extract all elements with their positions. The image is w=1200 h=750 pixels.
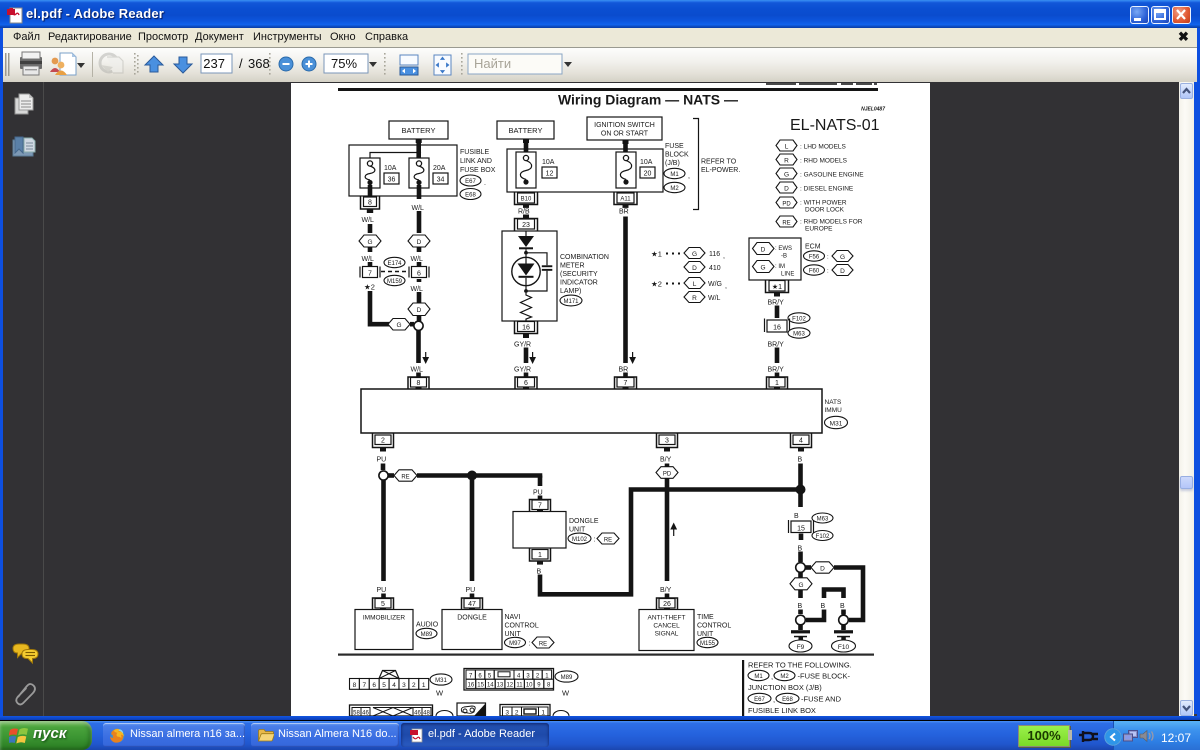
fuse F12 10A [516, 152, 557, 188]
hexagon G at junction [388, 319, 410, 331]
svg-text:(J/B): (J/B) [665, 160, 680, 167]
svg-text:D: D [820, 566, 825, 573]
page header remnant (cut-off running title) [766, 83, 877, 85]
svg-text:M2: M2 [670, 186, 679, 192]
svg-text:2: 2 [381, 438, 385, 445]
svg-text:BR: BR [619, 209, 629, 216]
D branch wire right and down [834, 568, 863, 621]
svg-text:BR/Y: BR/Y [768, 300, 785, 307]
svg-text:-B: -B [781, 254, 787, 260]
svg-text:PU: PU [533, 490, 543, 497]
svg-text:JUNCTION BOX (J/B): JUNCTION BOX (J/B) [748, 683, 822, 692]
svg-text:: IM: : IM [775, 264, 785, 270]
wire battery B1 to fuses [370, 139, 421, 159]
svg-text:D: D [784, 186, 789, 193]
connector face cut 3-2-1 [500, 705, 569, 717]
svg-text:W/G: W/G [708, 281, 722, 288]
fuse block J/B [507, 149, 663, 192]
svg-text:20: 20 [644, 171, 652, 178]
svg-text:: RHD MODELS FOR: : RHD MODELS FOR [800, 219, 863, 226]
hexagon PD [656, 464, 678, 479]
svg-text:ANTI-THEFT: ANTI-THEFT [648, 615, 686, 622]
svg-text:7: 7 [362, 682, 366, 689]
svg-text:IMMU: IMMU [825, 407, 843, 414]
svg-text:F56: F56 [809, 255, 820, 261]
wire to junction circle [381, 464, 386, 471]
svg-text:10A: 10A [640, 159, 653, 166]
svg-text:CONTROL: CONTROL [505, 623, 539, 630]
svg-text:M97: M97 [509, 641, 521, 647]
svg-text:INDICATOR: INDICATOR [560, 280, 598, 287]
svg-text:20A: 20A [433, 165, 446, 172]
svg-text:RE: RE [604, 538, 612, 544]
svg-text:F60: F60 [809, 269, 820, 275]
A11 connector [614, 193, 637, 208]
svg-text:6: 6 [372, 682, 376, 689]
svg-text:B: B [794, 513, 799, 520]
svg-text:: EWS: : EWS [775, 246, 792, 252]
svg-text:REFER TO THE FOLLOWING.: REFER TO THE FOLLOWING. [748, 661, 852, 670]
hexagon D EWS-B [753, 243, 793, 260]
svg-text:L: L [785, 144, 789, 151]
svg-text:COMBINATION: COMBINATION [560, 254, 609, 261]
svg-text:B: B [798, 546, 803, 553]
ground circle B [839, 615, 849, 625]
anti-theft cancel signal box M155 [639, 610, 731, 651]
svg-text:PD: PD [663, 472, 672, 478]
svg-text:G: G [760, 265, 765, 272]
battery B1 [389, 121, 448, 143]
dongle unit pin 1 bracket [530, 549, 551, 565]
svg-text:LAMP): LAMP) [560, 288, 581, 295]
svg-text:BR/Y: BR/Y [768, 367, 785, 374]
svg-text:D: D [761, 247, 766, 254]
svg-text:16: 16 [468, 683, 475, 689]
svg-text:7: 7 [624, 380, 628, 387]
svg-text:BATTERY: BATTERY [402, 126, 436, 135]
ECM labels F56 F60 [804, 244, 830, 262]
svg-text:REFER TO: REFER TO [701, 159, 737, 166]
svg-text:14: 14 [487, 683, 494, 689]
svg-text:8: 8 [368, 200, 372, 207]
svg-text:DONGLE: DONGLE [457, 615, 487, 622]
IMMU pin 7 bracket [615, 377, 637, 390]
BR/Y wire into IMMU pin 1 [775, 373, 780, 379]
junction circle W/L [410, 316, 423, 331]
junction circle B/D [796, 563, 806, 573]
svg-text:M31: M31 [435, 678, 447, 684]
svg-text:M31: M31 [830, 421, 843, 428]
svg-text:,: , [725, 283, 727, 290]
svg-text:M102: M102 [572, 537, 588, 543]
svg-text:A11: A11 [620, 197, 631, 203]
dongle box M97 [442, 610, 539, 650]
svg-text:4: 4 [799, 438, 803, 445]
svg-text:W/L: W/L [412, 205, 425, 212]
battery B2 [497, 121, 554, 143]
svg-text:: LHD MODELS: : LHD MODELS [800, 144, 847, 151]
junction dot dongle branch [467, 471, 477, 481]
svg-text:/: / [239, 56, 243, 71]
svg-text:LINE: LINE [781, 272, 794, 278]
IMMU pin 8 bracket [408, 377, 429, 390]
B label above ground A [798, 590, 803, 610]
svg-text:F102: F102 [816, 534, 830, 540]
anti-theft pin 26 bracket [657, 598, 678, 611]
B label below 15 [798, 534, 803, 553]
svg-text:F102: F102 [792, 317, 806, 323]
pass-through connector 16 M63/F102 [765, 313, 811, 338]
svg-text:CONTROL: CONTROL [697, 623, 731, 630]
svg-text:34: 34 [437, 177, 445, 184]
title rule [338, 88, 878, 91]
svg-text:NATS: NATS [825, 399, 843, 406]
fuse F34 20A [409, 158, 448, 188]
svg-text::: : [827, 269, 829, 275]
svg-text:EL-POWER.: EL-POWER. [701, 167, 740, 174]
svg-text:M155: M155 [700, 641, 716, 647]
junction dot B bus [796, 485, 806, 495]
comb meter pin 23 bracket [515, 219, 538, 232]
wire conn8 down [368, 224, 373, 233]
B10 connector [515, 193, 538, 208]
hexagon G left column [359, 235, 381, 247]
svg-text:410: 410 [709, 265, 721, 272]
pass-through connector 15 M63/F102 [789, 513, 834, 541]
hexagon G for F56 [832, 251, 853, 262]
IMMU pin 2 bracket [373, 434, 394, 452]
svg-text:: DIESEL ENGINE: : DIESEL ENGINE [800, 186, 854, 193]
hexagon RE dongle unit [597, 533, 619, 544]
svg-text:W: W [436, 689, 444, 698]
svg-text:PU: PU [377, 587, 387, 594]
svg-text:B/Y: B/Y [660, 457, 672, 464]
ECM pin *1 bracket [766, 280, 789, 297]
BR wire long drop [619, 217, 637, 379]
svg-text:R/B: R/B [518, 209, 530, 216]
legend L : LHD MODELS [776, 140, 847, 151]
hexagon G main line [790, 573, 812, 590]
wire to ground circle A [798, 610, 803, 615]
svg-text:(SECURITY: (SECURITY [560, 271, 598, 278]
svg-text:F10: F10 [838, 644, 850, 651]
svg-text:B: B [798, 457, 803, 464]
legend RE : RHD MODELS FOR EUROPE [776, 216, 863, 233]
svg-text:EUROPE: EUROPE [805, 226, 833, 233]
svg-text:M1: M1 [670, 172, 679, 178]
svg-text:W/L: W/L [411, 367, 424, 374]
svg-text:G: G [840, 254, 845, 261]
svg-text::: : [594, 537, 596, 544]
svg-text:DOOR LOCK: DOOR LOCK [805, 207, 845, 214]
B/Y long drop with up arrow [660, 478, 677, 599]
svg-text:8: 8 [417, 380, 421, 387]
svg-text:36: 36 [388, 177, 396, 184]
svg-text:W/L: W/L [411, 256, 424, 263]
fuse block labels M1 M2 [664, 143, 690, 193]
svg-text:E67: E67 [754, 697, 765, 703]
svg-text:3: 3 [402, 682, 406, 689]
svg-text:,: , [771, 672, 773, 681]
svg-text:237: 237 [203, 56, 225, 71]
svg-text:G: G [367, 239, 372, 246]
svg-text:GY/R: GY/R [514, 342, 531, 349]
svg-text:M63: M63 [793, 332, 805, 338]
svg-text:1: 1 [422, 682, 426, 689]
immobilizer pin 5 bracket [373, 598, 394, 611]
svg-text:75%: 75% [331, 56, 357, 71]
refer-to-following note [742, 660, 852, 716]
star1 legend [651, 250, 680, 259]
svg-text:RE: RE [539, 642, 547, 648]
wire L-bend left column to G hex [370, 291, 389, 324]
svg-text:W/L: W/L [411, 286, 424, 293]
svg-text:BATTERY: BATTERY [509, 126, 543, 135]
hexagon D for F60 [832, 265, 853, 276]
svg-text:METER: METER [560, 263, 585, 270]
svg-text:M89: M89 [561, 675, 573, 681]
svg-text:8: 8 [353, 682, 357, 689]
diode D1 [518, 232, 534, 255]
horizontal PU bus [417, 473, 542, 478]
svg-text:E174: E174 [387, 261, 402, 267]
junction circle PU (RE) [379, 471, 388, 480]
svg-text:RE: RE [782, 221, 790, 227]
wire to D junction circle [798, 552, 803, 563]
comb meter labels M171 [560, 254, 609, 306]
svg-text:10: 10 [526, 683, 533, 689]
svg-text:BLOCK: BLOCK [665, 152, 689, 159]
ground symbol F10 [832, 625, 856, 653]
svg-text:R: R [692, 295, 697, 302]
svg-text:1: 1 [775, 380, 779, 387]
svg-text:7: 7 [538, 503, 542, 510]
svg-text:3: 3 [665, 438, 669, 445]
hexagon G IM LINE [753, 261, 795, 278]
svg-text:2: 2 [412, 682, 416, 689]
legend R : RHD MODELS [776, 154, 848, 165]
B wire to junction [798, 464, 803, 508]
svg-text:10A: 10A [542, 159, 555, 166]
svg-text:13: 13 [497, 683, 504, 689]
svg-text:GY/R: GY/R [514, 367, 531, 374]
dongle unit box M102 [513, 512, 599, 549]
wire battery B2 to fuse 12 [524, 139, 529, 153]
svg-text:AUDIO: AUDIO [416, 622, 439, 629]
comb meter pin 16 bracket [515, 321, 538, 338]
fusible link and fuse box E67/E68 [349, 145, 457, 196]
svg-text:G: G [396, 322, 401, 329]
fuse F20 10A [616, 152, 655, 188]
svg-text:10A: 10A [384, 165, 397, 172]
svg-text:BR: BR [619, 367, 629, 374]
svg-text:D: D [840, 268, 845, 275]
svg-text:M171: M171 [563, 299, 579, 305]
connector 7 (E174/M159) [360, 262, 380, 278]
svg-text:L: L [693, 281, 697, 288]
svg-text:6: 6 [417, 271, 421, 278]
connector 8 below fuse 36 [361, 185, 380, 213]
svg-text:R: R [784, 158, 789, 165]
hexagon D ground branch [806, 562, 835, 573]
combination meter box [502, 231, 557, 321]
svg-text:: RHD MODELS: : RHD MODELS [800, 158, 848, 165]
ground symbol F9 [789, 625, 812, 653]
svg-text:26: 26 [663, 601, 671, 608]
svg-text:15: 15 [477, 683, 484, 689]
svg-text:M63: M63 [817, 517, 829, 523]
svg-text:E68: E68 [465, 193, 476, 199]
svg-text:4: 4 [392, 682, 396, 689]
connector face M89 [464, 669, 578, 698]
svg-text:E68: E68 [782, 697, 793, 703]
svg-text:M1: M1 [754, 674, 763, 680]
NATS IMMU box M31 [361, 389, 848, 433]
svg-text:-FUSE AND: -FUSE AND [801, 695, 842, 704]
wire fuse34 down [412, 185, 425, 233]
svg-text::: : [529, 641, 531, 648]
IMMU pin 4 bracket [791, 434, 812, 452]
legend D : DIESEL ENGINE [776, 182, 854, 193]
footer separator [338, 654, 874, 656]
W/L below connector 6 [411, 279, 424, 293]
hexagon D mid column [408, 235, 430, 247]
svg-text:15: 15 [797, 526, 805, 533]
svg-text:D: D [692, 265, 697, 272]
dongle pin 47 bracket [462, 598, 483, 611]
svg-text:23: 23 [522, 222, 530, 229]
bridge wire B (n-shape) [806, 590, 845, 621]
security indicator LED [512, 255, 540, 293]
svg-text:W: W [562, 689, 570, 698]
svg-text:,: , [773, 695, 775, 704]
svg-text::: : [827, 255, 829, 261]
svg-text:E67: E67 [465, 179, 476, 185]
svg-text:Найти: Найти [474, 56, 511, 71]
legend G : GASOLINE ENGINE [776, 168, 864, 179]
svg-text:PU: PU [377, 457, 387, 464]
F60 oval [804, 265, 830, 275]
W/L drop into IMMU pin 8 [411, 331, 430, 379]
svg-text:FUSIBLE: FUSIBLE [460, 149, 490, 156]
svg-text:11: 11 [516, 683, 523, 689]
svg-text:116: 116 [709, 251, 720, 258]
svg-text:M159: M159 [387, 279, 403, 285]
svg-text:DONGLE: DONGLE [569, 518, 599, 525]
ground circle A [796, 615, 806, 625]
IMMU pin 1 bracket [767, 377, 788, 390]
BR/Y wire segment [775, 348, 780, 364]
svg-text:12: 12 [546, 171, 554, 178]
dongle unit pin 7 bracket [530, 500, 551, 513]
resistor R1 [521, 293, 532, 321]
svg-text:6: 6 [524, 380, 528, 387]
svg-text:: WITH POWER: : WITH POWER [800, 200, 847, 207]
PU drop to dongle unit pin 7 [533, 476, 543, 501]
svg-text:B: B [821, 603, 826, 610]
svg-text:W/L: W/L [362, 256, 375, 263]
svg-text:NAVI: NAVI [505, 614, 521, 621]
svg-text:G: G [798, 582, 803, 589]
hexagon D legend 410 [684, 262, 721, 273]
svg-text:16: 16 [522, 325, 530, 332]
svg-text:PD: PD [782, 202, 791, 208]
svg-text:FUSE: FUSE [665, 143, 684, 150]
BR/Y wire to connector 16 [775, 306, 780, 319]
PU drop to immobilizer [377, 480, 387, 599]
svg-text:M89: M89 [421, 632, 433, 638]
PU drop to dongle [466, 480, 476, 599]
svg-text:F9: F9 [797, 644, 805, 651]
wire ignition to fuse 20 [623, 140, 628, 153]
svg-text:47: 47 [468, 601, 476, 608]
svg-text:CANCEL: CANCEL [653, 623, 680, 630]
hexagon L legend W/G [684, 278, 727, 291]
svg-text:UNIT: UNIT [569, 527, 586, 534]
svg-text:M2: M2 [780, 674, 789, 680]
svg-text:B/Y: B/Y [660, 587, 672, 594]
W/L labels under hexagons [362, 247, 424, 263]
svg-text:16: 16 [773, 325, 781, 332]
svg-text:★1: ★1 [772, 283, 782, 291]
svg-text:TIME: TIME [697, 614, 714, 621]
svg-text:D: D [417, 307, 422, 314]
GY/R drop into IMMU pin 6 [514, 342, 536, 379]
svg-text:: GASOLINE ENGINE: : GASOLINE ENGINE [800, 172, 864, 179]
hexagon G legend star1 [684, 248, 725, 261]
svg-text:★1: ★1 [651, 250, 662, 259]
svg-text:B: B [840, 603, 845, 610]
svg-text:W/L: W/L [362, 217, 375, 224]
svg-text:1: 1 [538, 552, 542, 559]
svg-text:.: . [484, 180, 486, 187]
svg-text:W/L: W/L [708, 295, 721, 302]
hexagon D lower [408, 303, 430, 316]
svg-text:★2: ★2 [364, 283, 375, 292]
key icon box [457, 703, 486, 716]
svg-text:SIGNAL: SIGNAL [655, 631, 679, 638]
fuse F36 10A [360, 158, 399, 188]
svg-text:NJEL0487: NJEL0487 [861, 107, 885, 113]
immobilizer box M89 [355, 610, 439, 650]
svg-text:★2: ★2 [651, 280, 662, 289]
legend PD : WITH POWER DOOR LOCK [776, 197, 847, 214]
svg-text:G: G [784, 172, 789, 179]
svg-text:FUSIBLE LINK BOX: FUSIBLE LINK BOX [748, 706, 816, 715]
svg-text:FUSE BOX: FUSE BOX [460, 167, 496, 174]
svg-text:Wiring Diagram — NATS —: Wiring Diagram — NATS — [558, 92, 738, 108]
svg-text:IMMOBILIZER: IMMOBILIZER [363, 615, 406, 622]
refer to EL-POWER bracket [693, 119, 740, 210]
connector 6 (E174/M159) [409, 262, 429, 278]
svg-text:IGNITION SWITCH: IGNITION SWITCH [594, 122, 655, 129]
svg-text:-FUSE BLOCK-: -FUSE BLOCK- [798, 672, 851, 681]
wire B10 to 23 [523, 215, 529, 219]
svg-text:LINK AND: LINK AND [460, 158, 492, 165]
B wire elbow to pin4 bus [540, 490, 798, 595]
IMMU pin 6 bracket [515, 377, 537, 390]
star2 legend [651, 280, 680, 289]
svg-text:B10: B10 [521, 197, 532, 203]
svg-text:5: 5 [381, 601, 385, 608]
svg-text:B: B [537, 569, 542, 576]
hexagon RE [388, 470, 417, 481]
svg-text:ON OR START: ON OR START [601, 131, 649, 138]
capacitor branch [526, 253, 552, 291]
svg-text:RE: RE [401, 475, 409, 481]
connector face M57 (cut) [350, 705, 454, 717]
svg-text:,: , [723, 253, 725, 260]
